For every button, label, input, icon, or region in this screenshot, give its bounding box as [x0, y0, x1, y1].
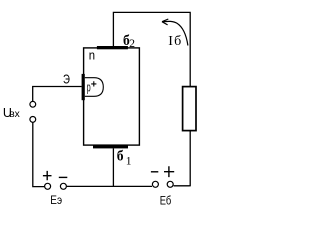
Eб left terminal circle: [152, 181, 158, 187]
input terminal upper circle: [30, 101, 36, 107]
input terminal lower circle: [30, 117, 36, 123]
svg-text:Eб: Eб: [160, 196, 172, 208]
p+ emitter region outline: [85, 78, 104, 97]
svg-text:вх: вх: [9, 108, 20, 120]
svg-text:б: б: [117, 149, 124, 165]
minus sign of Eэ: [59, 176, 68, 178]
current arrow Iб: [163, 21, 188, 45]
svg-text:n: n: [89, 48, 95, 62]
wire emitter to input terminal: [32, 86, 82, 102]
wire Eб to resistor branch: [174, 131, 191, 187]
Eэ right terminal circle: [60, 183, 66, 189]
wire resistor up and across top to base b2: [113, 12, 190, 87]
base contact bar b2 (top): [97, 46, 128, 49]
resistor R: [183, 87, 196, 131]
Eб right terminal circle: [167, 181, 173, 187]
wire from base b1 down to bottom wire: [112, 148, 114, 187]
plus sign of Eб: [164, 166, 174, 177]
svg-text:Eэ: Eэ: [50, 195, 62, 207]
bottom wire Eэ to Eб with b1 junction: [67, 185, 152, 187]
Eэ left terminal circle: [45, 183, 51, 189]
transistor body n-region rectangle: [84, 48, 140, 145]
base contact bar b1 (bottom): [93, 145, 128, 149]
svg-text:Iб: Iб: [168, 34, 181, 49]
minus sign of Eб: [151, 171, 158, 173]
plus sign of Eэ: [43, 171, 52, 180]
svg-text:1: 1: [126, 155, 132, 167]
wire input terminal down to Eэ: [32, 122, 44, 187]
svg-text:p: p: [87, 79, 91, 94]
svg-text:Э: Э: [63, 73, 70, 87]
emitter contact bar: [82, 74, 85, 100]
svg-text:2: 2: [129, 36, 135, 50]
